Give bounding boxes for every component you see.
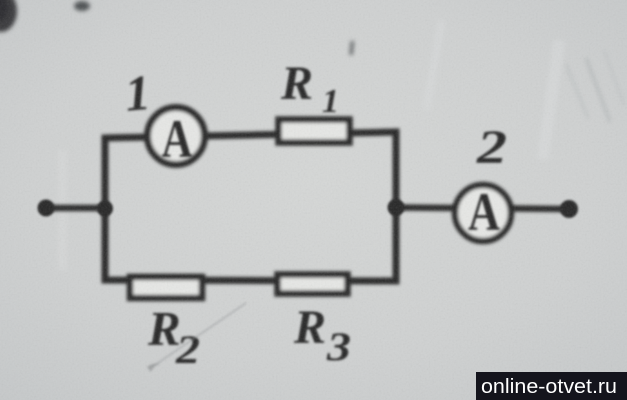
svg-text:online-otvet.ru: online-otvet.ru bbox=[481, 375, 617, 398]
